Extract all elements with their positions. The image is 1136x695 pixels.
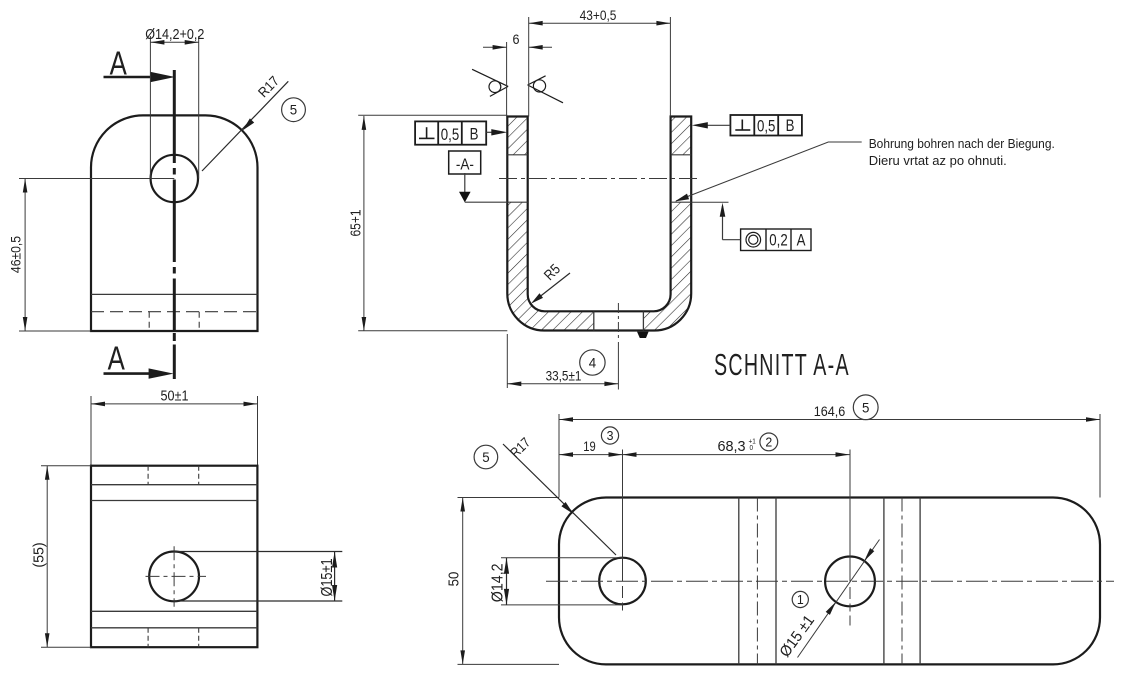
top view wall inner edge bottom <box>91 627 257 629</box>
front view hole Ø14.2 <box>151 155 198 202</box>
svg-text:50: 50 <box>445 572 462 587</box>
dimension Ø14,2+0,2 <box>145 25 204 179</box>
svg-text:65+1: 65+1 <box>347 209 364 236</box>
svg-text:164,6: 164,6 <box>814 403 845 419</box>
svg-text:3: 3 <box>607 429 614 443</box>
title SCHNITT A-A <box>714 349 850 382</box>
datum -A- feature <box>449 151 508 202</box>
svg-text:Dieru vrtat az po ohnuti.: Dieru vrtat az po ohnuti. <box>869 153 1007 168</box>
top view wall inner edge top <box>91 484 257 486</box>
dimension Ø14,2 (flat) <box>490 558 622 605</box>
leader R5 <box>531 261 570 304</box>
bend zone 1 axis <box>756 498 758 665</box>
dimension 65+1 <box>347 115 507 331</box>
svg-text:B: B <box>470 125 479 144</box>
svg-text:2: 2 <box>765 435 772 449</box>
svg-text:Ø14,2: Ø14,2 <box>490 563 507 602</box>
dimension 50±1 <box>91 387 258 466</box>
section bottom hole centerline <box>617 303 619 390</box>
top view bend tangent top <box>91 500 257 502</box>
balloon 5 (164,6) <box>853 395 878 420</box>
svg-text:5: 5 <box>482 450 490 465</box>
extension line hole edge right <box>691 201 728 203</box>
surface finish symbol right <box>528 76 563 103</box>
front view hidden hole edge right <box>198 312 200 331</box>
dimension Ø15±1 (top view) <box>174 552 342 602</box>
concentricity frame <box>720 203 811 251</box>
dimension 33,5±1 <box>507 334 618 388</box>
dimension 46±0,5 <box>8 179 175 332</box>
svg-text:5: 5 <box>862 400 870 415</box>
svg-text:43+0,5: 43+0,5 <box>580 7 617 23</box>
svg-text:A: A <box>110 45 127 82</box>
svg-text:0,5: 0,5 <box>441 125 459 144</box>
top view body outline <box>91 466 257 648</box>
section hole edges in walls <box>507 155 691 202</box>
note text Bohrung bohren nach der Biegung. <box>869 136 1055 151</box>
flat hole 2 Ø15 <box>825 557 875 607</box>
flat horizontal centerline <box>546 580 1114 582</box>
section outline <box>507 117 691 331</box>
balloon 2 <box>760 433 778 451</box>
front view bend tangent line <box>91 293 258 295</box>
surface finish symbol left <box>472 69 508 96</box>
balloon 5 (front view) <box>282 98 306 122</box>
dimension 164,6 <box>559 403 1100 497</box>
leader R17 (front view) <box>202 73 288 171</box>
svg-text:A: A <box>108 340 125 377</box>
top view hidden hole edges bottom band <box>148 628 199 647</box>
svg-text:A: A <box>797 231 807 250</box>
balloon 4 <box>580 350 605 375</box>
svg-text:46±0,5: 46±0,5 <box>8 236 24 273</box>
hatch pattern def <box>0 0 1 1</box>
datum B triangle <box>637 332 649 338</box>
svg-text:B: B <box>786 117 795 136</box>
perpendicularity frame right <box>692 115 802 136</box>
dimension (55) <box>31 466 91 648</box>
balloon 3 <box>601 427 618 444</box>
svg-text:-A-: -A- <box>456 156 474 173</box>
note text Dieru vrtat az po ohnuti. <box>869 153 1007 168</box>
section hatching <box>507 117 691 331</box>
section arrow A top <box>104 45 176 82</box>
svg-text:Ø14,2+0,2: Ø14,2+0,2 <box>145 25 204 42</box>
flat pattern outline <box>559 498 1100 665</box>
svg-text:4: 4 <box>589 355 597 370</box>
svg-text:6: 6 <box>512 31 519 47</box>
top view bend tangent bottom <box>91 610 257 612</box>
dimension 50 (flat) <box>445 498 559 665</box>
balloon 1 <box>792 591 808 607</box>
section hole centerline <box>499 178 700 180</box>
section bottom hole edges <box>594 311 644 330</box>
svg-text:SCHNITT A-A: SCHNITT A-A <box>714 349 850 382</box>
bend zone 2 axis <box>901 498 903 665</box>
dimension 6 <box>483 31 552 116</box>
bend zone 1 tangent lines <box>739 498 776 665</box>
bend zone 2 tangent lines <box>884 498 920 665</box>
svg-text:68,3: 68,3 <box>717 439 745 455</box>
svg-text:19: 19 <box>583 439 595 454</box>
svg-text:33,5±1: 33,5±1 <box>546 367 582 383</box>
svg-text:5: 5 <box>290 102 298 117</box>
leader R17 (flat) with balloon 5 <box>474 434 616 555</box>
dimension Ø15 ±1 (flat) <box>776 540 879 661</box>
top view hidden hole edges top band <box>148 466 199 485</box>
front view hidden hole edge left <box>148 312 150 331</box>
svg-text:0: 0 <box>750 444 754 452</box>
svg-text:(55): (55) <box>31 542 47 567</box>
top view hole centerlines <box>146 546 207 607</box>
section arrow A bottom <box>104 340 174 379</box>
svg-text:Ø15±1: Ø15±1 <box>319 558 336 596</box>
flat hole1 vertical centerline <box>622 450 624 611</box>
dimension 68,3 +1/0 <box>623 438 851 457</box>
dimension 19 <box>559 439 623 457</box>
svg-text:Bohrung bohren nach der Biegun: Bohrung bohren nach der Biegung. <box>869 136 1055 151</box>
flat hole2 vertical centerline <box>849 450 851 626</box>
front view cutting plane line A-A <box>173 70 176 379</box>
svg-text:0,5: 0,5 <box>757 117 775 136</box>
dimension 43+0,5 <box>529 7 671 116</box>
note leader <box>675 142 862 201</box>
svg-text:50±1: 50±1 <box>161 387 189 404</box>
perpendicularity frame left <box>415 121 507 144</box>
flat hole 1 Ø14.2 <box>599 558 646 605</box>
front view hidden bottom-plate line <box>91 311 258 313</box>
svg-text:1: 1 <box>797 593 804 607</box>
front view body outline <box>91 115 258 331</box>
top view hole Ø15 <box>149 552 199 602</box>
svg-text:0,2: 0,2 <box>769 231 787 250</box>
